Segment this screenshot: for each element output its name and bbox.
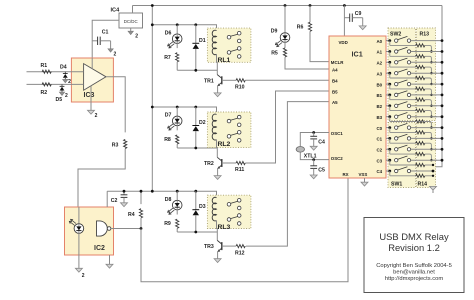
svg-text:D7: D7 [165,113,172,119]
switch SW row B0 [395,80,411,86]
wire switch C1 to bus [411,137,442,139]
wire into IC2 LED [78,207,80,224]
node resistor B3 join [430,126,432,128]
svg-text:R5: R5 [271,51,278,57]
wire R6 top [309,6,311,23]
switch SW row A3 [395,69,411,75]
svg-text:TR1: TR1 [204,78,214,84]
switch SW row A0 [395,36,411,42]
wire pin C3 stub [386,159,390,161]
node C4 [312,131,315,134]
svg-text:D1: D1 [199,38,206,44]
switch SW row A1 [395,47,411,53]
wire resistor C2 drop [425,154,437,160]
wire R11 to IC1 B5 [245,91,329,163]
svg-text:Copyright Ben Suffolk 2004-5: Copyright Ben Suffolk 2004-5 [376,263,452,269]
svg-text:ben@vanilla.net: ben@vanilla.net [393,270,435,276]
wire pin A0 stub [386,40,390,42]
node resistor B0 join [430,94,432,96]
svg-text:R9: R9 [164,221,171,227]
wire row RL2 bottom rail [177,147,217,149]
wire switch C2 to bus [411,148,442,150]
resistor R5 [283,48,286,57]
svg-text:A4: A4 [332,67,338,72]
capacitor C1 [92,37,110,49]
relay RL2 box [207,112,251,148]
svg-text:R1: R1 [41,63,48,69]
wire row RL3 bottom rail [177,231,217,233]
wire coil bottom [216,221,219,241]
wire switch A3 to bus [411,72,442,74]
wire resistor B3 drop [425,122,437,128]
wire resistor B0 drop [425,89,437,95]
node bus A2 [441,61,444,64]
op-amp IC3 triangle [84,64,106,91]
capacitor C4 [310,133,317,147]
resistor bank R13 box [417,28,436,121]
svg-text:IC1: IC1 [352,50,363,59]
resistor pullup row C0 [390,128,425,134]
wire pin A1 stub [386,51,390,53]
svg-text:USB DMX Relay: USB DMX Relay [379,231,449,242]
wire switch B1 to bus [411,94,442,96]
svg-text:R2: R2 [41,90,48,96]
switch SW row C4 [395,167,411,173]
ground TR2 [214,176,221,180]
wire pin B0 stub [386,83,390,85]
wire coil bottom [216,140,219,158]
node A0 [388,39,391,42]
svg-text:D4: D4 [60,64,67,70]
wire pin C4 stub [386,170,390,172]
node resistor C4 join [432,175,434,177]
LED D8 [168,200,182,214]
capacitor C2 [121,191,128,203]
wire D2 top [195,107,197,125]
wire switch C0 to bus [411,127,442,129]
svg-text:R3: R3 [112,143,119,149]
svg-text:B4: B4 [332,79,338,84]
relay RL1 contact 1 [227,31,241,42]
microcontroller IC1 box [329,36,386,178]
wire pin C1 stub [386,137,390,139]
node bus B3 [441,115,444,118]
node R4 top [140,190,143,193]
LED D9 [275,33,289,47]
svg-text:B0: B0 [377,82,383,87]
wire +V top rail [133,5,443,7]
switch SW row C3 [395,156,411,162]
ground TR3 [214,259,221,263]
ground D5 [59,92,68,99]
title block box [364,218,464,293]
wire VDD [343,6,345,37]
wire IC3 input1 (from R1) [27,71,84,73]
ground C5 [310,175,317,179]
node C5 [312,158,315,161]
svg-text:2: 2 [135,34,138,40]
svg-text:A0: A0 [377,39,383,44]
wire TR3 emitter [217,252,219,259]
svg-text:2: 2 [68,79,71,85]
switch SW row C1 [395,134,411,140]
ground C9 [359,26,366,30]
svg-text:R11: R11 [235,167,244,173]
node bus B1 [441,94,444,97]
resistor pullup row A3 [390,73,425,79]
LED D7 [168,116,182,130]
wire TR1 base [222,79,236,81]
wire R8 bottom [176,144,178,148]
wire D1 top [195,25,197,43]
wire coil bottom [216,54,219,74]
wire IC4 output to top rail [132,6,134,14]
wire pin A2 stub [386,61,390,63]
diode D1 [192,43,199,49]
resistor pullup row A2 [390,62,425,68]
switch SW row B2 [395,102,411,108]
resistor pullup row C3 [390,160,425,166]
wire resistor C1 drop [425,143,437,149]
svg-text:D2: D2 [199,120,206,126]
resistor pullup row C1 [390,138,425,144]
svg-text:C2: C2 [377,148,383,153]
node VDD tap [343,4,346,7]
wire switch C3 to bus [411,159,442,161]
node diode branch D2 [194,106,197,109]
svg-text:D6: D6 [165,30,172,36]
resistor R4 [139,191,142,228]
switch SW row A2 [395,58,411,64]
switch bank SW2 box [388,28,416,121]
wire left +V rail [151,6,153,192]
node B2 [388,104,391,107]
node rail RL2 [151,106,154,109]
svg-text:C1: C1 [102,30,109,36]
wire D8 to R9 [176,210,178,215]
wire R7 bottom [176,62,178,70]
wire D6 to R7 [176,44,178,49]
wire IC2 output [111,228,141,230]
resistor pullup row C4 [390,171,425,177]
wire switch B2 to bus [411,105,442,107]
relay RL1 contact 2 [227,47,241,59]
node bus C4 [432,170,435,173]
svg-text:R14: R14 [418,182,428,188]
resistor R2 [42,83,51,86]
node resistor C1 join [430,148,432,150]
gate IC2 detector [97,221,111,236]
node resistor C3 join [432,164,434,166]
wire R12 to IC1 A5 [246,102,329,247]
wire pin C0 stub [386,127,390,129]
node resistor B2 join [430,116,432,118]
ground D4 [63,79,72,85]
resistor R8 [176,135,179,144]
ground IC3 pin2 [88,110,98,119]
resistor R10 [236,79,245,82]
wire row RL1 bottom rail [177,69,217,71]
relay RL3 contact 2 [227,214,241,226]
wire pin B1 stub [386,94,390,96]
node R6 top [309,4,312,7]
wire D3 bottom [195,215,197,232]
transistor TR1 [217,75,222,86]
resistor pullup row C2 [390,149,425,155]
relay RL3 box [207,195,251,228]
resistor bank R14 box [417,123,436,188]
node B1 [388,94,391,97]
svg-text:A1: A1 [377,50,383,55]
op-amp IC3 box [71,58,113,102]
node B0 [388,83,391,86]
ground switch/resistor banks [430,186,437,193]
wire resistor B1 drop [425,100,437,106]
switch SW row B3 [395,113,411,119]
wire switch B3 to bus [411,116,442,118]
wire D3 top [195,191,197,209]
wire switch A1 to bus [411,51,442,53]
node D9 branch top [284,4,287,7]
diode D4 [63,72,68,80]
wire TR3 base [222,245,236,247]
node top-left rail junction [151,4,154,7]
crystal XTL1 [296,147,304,153]
resistor pullup row B1 [390,95,425,101]
LED inside IC2 [69,219,83,233]
svg-text:Revision 1.2: Revision 1.2 [388,242,440,253]
wire R5 to IC1 A4 [285,57,329,69]
switch bank SW1 box [388,123,416,188]
svg-text:C3: C3 [377,158,383,163]
wire crystal to OSC2 [300,152,329,159]
svg-text:VDD: VDD [339,40,348,45]
ground IC2 pin2 [75,268,84,279]
wire D7 top [176,107,178,116]
wire IC2 output to IC1 RX [141,178,348,282]
ground IC4 pin2 [128,28,138,40]
svg-text:B1: B1 [377,93,383,98]
wire IC2 gate ground stub [109,255,111,264]
transistor TR3 [217,240,222,251]
wire TR1 emitter [217,86,219,93]
svg-text:C9: C9 [355,11,362,17]
svg-text:RX: RX [343,172,349,177]
node D3 bottom [194,231,197,234]
svg-text:D5: D5 [56,97,63,103]
wire TR2 base [222,162,236,164]
wire R9 bottom [176,228,178,232]
node resistor A1 join [430,61,432,63]
node diode branch D1 [194,23,197,26]
node resistor C0 join [430,137,432,139]
node C1 [388,137,391,140]
wire pin B2 stub [386,105,390,107]
wire pin A3 stub [386,72,390,74]
ground IC2 gate [106,264,113,268]
wire resistor C4 to ground rail [425,175,433,177]
node bus B0 [441,83,444,86]
resistor R12 [236,245,245,248]
svg-text:R12: R12 [235,250,245,256]
wire D6 top [176,25,178,34]
node bus C3 [441,159,444,162]
diode D2 [192,126,199,132]
wire TR2 emitter [217,169,219,176]
wire +V rail row RL3 [152,191,216,198]
resistor R3 [124,139,127,148]
wire D8 top [176,191,178,200]
svg-text:R4: R4 [128,212,135,218]
ground C2 [121,203,128,207]
svg-text:2: 2 [82,273,85,279]
node C4 [388,170,391,173]
svg-text:2: 2 [114,51,117,57]
wire pin C2 stub [386,148,390,150]
LED D6 [168,34,182,48]
relay RL1 coil [212,30,216,55]
svg-text:RL1: RL1 [218,57,231,64]
switch SW row B1 [395,91,411,97]
svg-text:R10: R10 [235,85,245,91]
wire +V rail row RL1 [152,25,216,31]
resistor R7 [176,53,179,62]
node C2 [123,190,126,193]
switch SW row C0 [395,123,411,129]
resistor pullup row A1 [390,52,425,58]
svg-text:TR2: TR2 [204,161,214,167]
wire R3 to IC2 [78,149,125,207]
svg-text:D3: D3 [199,204,206,210]
opto IC2 box [65,207,114,255]
wire resistor A0 drop [425,45,437,51]
relay RL2 contact 1 [227,115,241,126]
node A1 [388,50,391,53]
svg-text:R7: R7 [164,55,171,61]
wire right bus down [433,6,442,187]
switch SW row C2 [395,145,411,151]
svg-text:A2: A2 [377,61,383,66]
node rail RL3 [151,190,154,193]
wire IC3 ground [90,86,92,111]
capacitor C9 [344,14,362,26]
node resistor A0 join [430,50,432,52]
wire resistor A3 drop [425,78,437,84]
wire IC4 input [92,20,119,58]
node C0 [388,126,391,129]
resistor R9 [176,219,179,228]
wire resistor A1 drop [425,56,437,62]
relay RL3 contact 1 [227,199,241,210]
svg-text:2: 2 [65,93,68,99]
node LED branch D8 [176,190,179,193]
wire IC3 output to R3 [106,77,125,133]
resistor R6 [308,22,311,31]
wire D7 to R8 [176,126,178,131]
svg-text:IC2: IC2 [94,245,105,252]
node resistor B1 join [430,105,432,107]
wire OSC1 [300,133,329,147]
svg-text:C4: C4 [377,169,383,174]
svg-text:C5: C5 [318,168,325,174]
ground VSS [361,178,368,186]
svg-text:B3: B3 [377,115,383,120]
diode D5 [60,84,65,92]
wire R6 to IC1 MCLR [310,31,329,61]
node B3 [388,115,391,118]
wire switch B0 to bus [411,83,442,85]
resistor R1 [42,70,51,73]
wire switch C4 to bus [411,170,433,172]
node bus C1 [441,137,444,140]
svg-text:R8: R8 [164,137,171,143]
relay RL1 box [207,28,251,62]
node A3 [388,72,391,75]
svg-text:C2: C2 [111,198,118,204]
resistor R11 [236,161,245,164]
wire isolated +V rail row RL3 [107,190,152,192]
svg-text:2: 2 [95,113,98,119]
svg-text:C1: C1 [377,137,383,142]
wire IC3 power top [91,58,93,69]
resistor pullup row B0 [390,84,425,90]
svg-text:R13: R13 [420,32,430,38]
wire resistor A2 drop [425,67,437,73]
svg-text:D8: D8 [165,197,172,203]
node resistor A2 join [430,72,432,74]
svg-text:OSC2: OSC2 [331,156,344,161]
svg-text:C0: C0 [377,126,383,131]
svg-text:TR3: TR3 [204,244,214,250]
svg-text:RL2: RL2 [218,141,231,148]
op IC4 DC/DC converter box [119,13,143,28]
resistor pullup row A0 [390,41,425,47]
relay RL3 coil [212,197,216,221]
node bus C2 [441,148,444,151]
svg-text:OSC1: OSC1 [331,131,344,136]
wire D9 to R5 [284,42,286,48]
relay RL2 coil [212,114,216,140]
wire pin B3 stub [386,116,390,118]
resistor pullup row B3 [390,117,425,123]
node D2 bottom [194,147,197,150]
node bus A0 [441,39,444,42]
node resistor C2 join [430,159,432,161]
svg-text:R6: R6 [297,25,304,31]
node diode branch D3 [194,190,197,193]
node A2 [388,61,391,64]
node C3 [388,159,391,162]
svg-text:DC/DC: DC/DC [124,19,138,24]
svg-text:SW2: SW2 [390,32,401,38]
ground C1 [108,49,117,58]
svg-text:RL3: RL3 [218,224,231,231]
node R4 / IC2 output [140,227,143,230]
ground C4 [310,146,317,150]
svg-text:B2: B2 [377,104,383,109]
wire D1 bottom [195,49,197,70]
svg-text:SW1: SW1 [391,182,402,188]
svg-text:A3: A3 [377,71,383,76]
wire resistor C3 to ground rail [425,164,433,166]
node bus A3 [441,72,444,75]
node LED branch D6 [176,23,179,26]
svg-text:D9: D9 [271,29,278,35]
wire switch A0 to bus [411,40,442,42]
svg-text:IC4: IC4 [111,8,121,14]
svg-text:MCLR: MCLR [331,60,345,65]
svg-text:B5: B5 [332,89,338,94]
